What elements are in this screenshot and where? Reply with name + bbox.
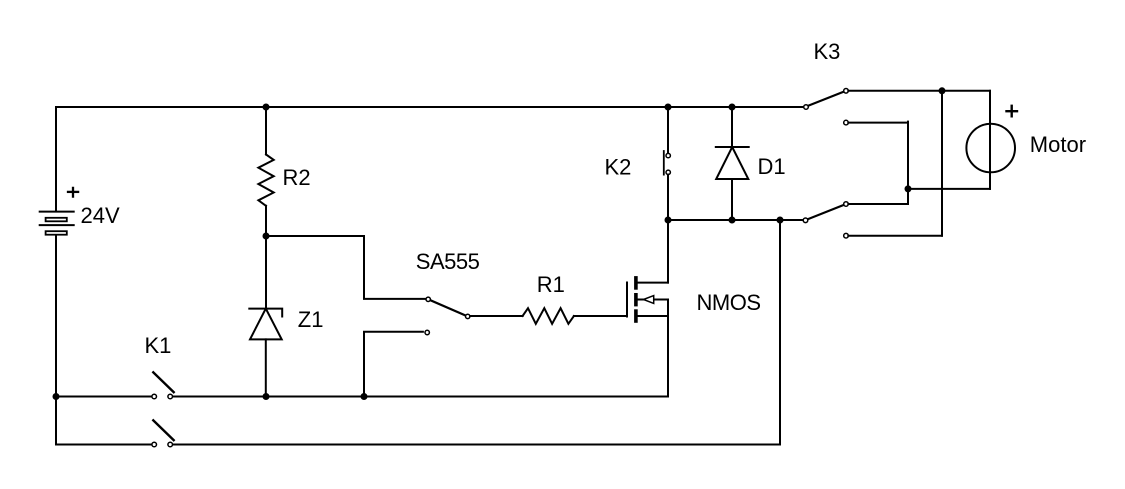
- diode D1: [716, 147, 749, 179]
- switch K1 pole 2: [152, 420, 174, 447]
- wire K3 top throw 1 to motor plus: [848, 90, 990, 92]
- junction top rail / R2: [263, 104, 270, 111]
- svg-text:Z1: Z1: [298, 307, 324, 332]
- switch SA555: [425, 297, 470, 335]
- junction motor minus / cross node: [905, 185, 912, 192]
- junction lower mid rail / NMOS drain: [665, 217, 672, 224]
- svg-text:K2: K2: [605, 154, 632, 179]
- svg-text:R2: R2: [283, 165, 311, 190]
- svg-text:NMOS: NMOS: [697, 290, 761, 315]
- wire K3 bottom throw 1: [848, 203, 908, 205]
- junction rail 1 / Z1: [263, 393, 270, 400]
- wire NMOS drain to lower mid rail: [667, 220, 669, 283]
- wire bottom rail 1 left of K1: [56, 396, 152, 398]
- wire left drop to second K1 pole rail: [55, 397, 57, 445]
- motor plus polarity mark: [1007, 106, 1018, 117]
- junction top rail / D1: [729, 104, 736, 111]
- wire R1 to NMOS gate: [574, 315, 627, 317]
- wire motor plus riser: [941, 91, 943, 236]
- svg-text:K3: K3: [814, 39, 841, 64]
- junction node A R2/Z1: [263, 233, 270, 240]
- junction rail 1 / SA555 throw 2: [361, 393, 368, 400]
- wire Z1 anode to bottom rail 1: [265, 339, 267, 396]
- resistor R2: [258, 155, 273, 206]
- svg-text:R1: R1: [537, 272, 565, 297]
- junction lower mid rail / D1 anode: [729, 217, 736, 224]
- junction K3 throw wire / motor plus riser: [939, 87, 946, 94]
- wire battery positive lead: [55, 107, 57, 211]
- wire K2 bottom lead: [667, 175, 669, 220]
- wire SA555 pole to R1: [470, 315, 523, 317]
- wire riser from rail 2 to lower mid rail: [779, 220, 781, 445]
- wire bottom rail 2 left of K1: [56, 444, 152, 446]
- zener diode Z1: [249, 309, 282, 340]
- wire cross node vertical: [907, 122, 909, 204]
- junction top rail / K2: [665, 104, 672, 111]
- battery plus polarity mark: [68, 188, 78, 197]
- junction lower mid rail / riser: [777, 217, 784, 224]
- wire node A to SA555 throw 1: [266, 236, 426, 299]
- resistor R1: [523, 308, 574, 324]
- wire NMOS source and body to bottom rail 1: [667, 300, 669, 397]
- svg-text:24V: 24V: [81, 203, 120, 228]
- wire lower mid rail: [668, 219, 803, 221]
- motor M1: [966, 124, 1015, 173]
- battery V1 24V: [40, 212, 74, 235]
- wire SA555 throw 2 to bottom rail 1: [364, 332, 423, 397]
- wire K2 top lead: [667, 107, 669, 153]
- wire K3 bottom throw 2 to motor plus riser: [848, 235, 942, 237]
- wire K3 top throw 2 to cross node: [848, 122, 908, 124]
- wire R2 top lead: [265, 107, 267, 155]
- svg-text:K1: K1: [145, 333, 172, 358]
- transistor Q1 NMOS: [627, 278, 668, 321]
- svg-text:Motor: Motor: [1030, 132, 1086, 157]
- svg-text:D1: D1: [758, 154, 786, 179]
- wire D1 anode lead: [731, 179, 733, 220]
- wire R2 bottom lead to node A and Z1: [265, 206, 267, 309]
- switch K1 pole 1: [152, 372, 174, 399]
- svg-text:SA555: SA555: [416, 249, 480, 274]
- wire motor minus to cross node: [908, 188, 990, 190]
- relay contact K3 pole 2: [803, 202, 848, 238]
- wire motor vertical lead: [989, 91, 991, 189]
- wire D1 cathode lead: [731, 107, 733, 147]
- wire battery negative lead: [55, 235, 57, 396]
- wire bottom rail 2 right of K1: [173, 444, 780, 446]
- pushbutton K2: [664, 151, 671, 175]
- relay contact K3 pole 1: [804, 89, 849, 125]
- wire top rail from battery + to K3 pole: [56, 106, 804, 108]
- wire bottom rail 1 right of K1 to NMOS source: [173, 396, 668, 398]
- junction battery negative / rail 1: [53, 393, 60, 400]
